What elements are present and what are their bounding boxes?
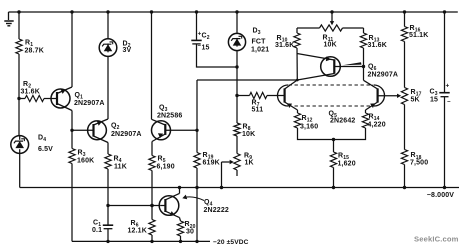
svg-text:2N2222: 2N2222 bbox=[204, 207, 229, 214]
wire R10 to Q5 node bbox=[296, 48, 298, 80]
node R7 junction bbox=[235, 94, 238, 97]
wire R1 top lead bbox=[18, 12, 20, 39]
transistor Q1 bbox=[51, 87, 105, 111]
node R15 bottom bbox=[332, 186, 335, 189]
node D3 top bbox=[235, 10, 238, 13]
node C1 bottom bbox=[106, 240, 109, 243]
svg-text:10K: 10K bbox=[242, 131, 255, 138]
resistor R5 bbox=[149, 156, 175, 171]
node C3 bottom bbox=[443, 186, 446, 189]
transistor Q2 bbox=[72, 119, 142, 143]
svg-text:511: 511 bbox=[252, 107, 264, 114]
svg-text:11K: 11K bbox=[114, 164, 127, 171]
svg-text:2N2642: 2N2642 bbox=[330, 118, 355, 125]
resistor R18 bbox=[401, 150, 428, 167]
node R9 wiper rail bbox=[220, 186, 223, 189]
svg-text:5K: 5K bbox=[411, 97, 420, 104]
capacitor C2 bbox=[191, 31, 209, 52]
node R20 bottom bbox=[179, 240, 182, 243]
resistor R10 bbox=[275, 28, 300, 49]
svg-text:2N2586: 2N2586 bbox=[157, 113, 182, 120]
svg-text:2N2907A: 2N2907A bbox=[74, 100, 105, 107]
svg-text:15: 15 bbox=[202, 45, 210, 52]
node Q4 collector rail bbox=[178, 186, 181, 189]
capacitor C3 bbox=[430, 83, 452, 106]
svg-text:2N2907A: 2N2907A bbox=[368, 72, 399, 79]
resistor R4 bbox=[105, 154, 127, 171]
label arrow Q4 bbox=[182, 195, 204, 201]
resistor R15 bbox=[330, 140, 355, 188]
wire rail to D3 bbox=[236, 12, 238, 34]
node R18 bottom bbox=[403, 186, 406, 189]
wire R16 to R17 bbox=[404, 42, 406, 88]
resistor R14 bbox=[362, 113, 385, 129]
transistor Q6 bbox=[297, 54, 364, 81]
wire R18 to rail bbox=[404, 165, 406, 188]
svg-text:1K: 1K bbox=[245, 160, 254, 167]
node Q5 left collector junction bbox=[296, 79, 299, 82]
node Q3 collector rail bbox=[150, 10, 153, 13]
svg-text:SeekIC.com: SeekIC.com bbox=[414, 235, 459, 244]
svg-text:160K: 160K bbox=[77, 158, 94, 165]
wire R3 to -20 rail crossing -8 rail bbox=[71, 164, 73, 242]
wire Q2 base node to R3 bbox=[71, 130, 73, 148]
svg-text:6.5V: 6.5V bbox=[38, 146, 53, 153]
wire rail to C2 bbox=[196, 12, 198, 40]
wire C2 to D3 column bbox=[197, 44, 238, 67]
resistor R3 bbox=[69, 149, 94, 165]
wire node to D4 bbox=[18, 99, 20, 136]
wire R9 wiper bbox=[222, 160, 234, 188]
wire D4 to -8V rail bbox=[19, 153, 21, 187]
svg-text:619K: 619K bbox=[203, 160, 220, 167]
resistor R20 bbox=[177, 221, 195, 241]
wire Q1 emitter to rail bbox=[71, 12, 73, 87]
svg-text:1,021: 1,021 bbox=[251, 47, 269, 54]
label Q6 bbox=[368, 64, 399, 79]
node R19 wire -20 rail bbox=[195, 240, 198, 243]
label arrow Q6 bbox=[343, 62, 362, 65]
wire Q4 base bbox=[108, 205, 160, 207]
wire rail to C3 bbox=[444, 12, 446, 92]
node Q3 base junction bbox=[195, 129, 198, 132]
wire Q2 collector to R4 bbox=[107, 143, 109, 155]
svg-text:FCT: FCT bbox=[252, 39, 267, 46]
svg-text:28.7K: 28.7K bbox=[25, 48, 44, 55]
wire D2 to Q2 emitter bbox=[107, 56, 109, 119]
wire R1 to R2 node bbox=[18, 54, 20, 99]
svg-text:30: 30 bbox=[186, 229, 194, 236]
transistor Q5 right half bbox=[364, 80, 402, 113]
svg-text:51.1K: 51.1K bbox=[409, 32, 428, 39]
node R1 top bbox=[17, 10, 20, 13]
capacitor C1 bbox=[92, 206, 113, 242]
wire -20V rail bbox=[72, 240, 210, 242]
node R6 bottom bbox=[150, 240, 153, 243]
wire rail to D2 bbox=[107, 12, 109, 39]
zener diode D2 bbox=[99, 39, 131, 57]
ground bbox=[4, 12, 13, 26]
resistor R9 bbox=[234, 153, 254, 177]
zener diode D3 bbox=[228, 28, 269, 54]
node C3 top bbox=[443, 10, 446, 13]
svg-text:3,160: 3,160 bbox=[300, 124, 318, 131]
svg-text:7,500: 7,500 bbox=[410, 160, 428, 167]
wire -8V rail bbox=[20, 187, 459, 189]
wire R19 node to -20 rail bbox=[196, 188, 198, 242]
svg-text:10K: 10K bbox=[324, 42, 337, 49]
svg-text:31.6K: 31.6K bbox=[21, 89, 40, 96]
zener diode D4 bbox=[11, 135, 53, 154]
svg-text:1,620: 1,620 bbox=[338, 161, 356, 168]
wire R4 to Q4 base node bbox=[107, 169, 109, 206]
resistor R16 bbox=[401, 12, 428, 42]
svg-text:3V: 3V bbox=[123, 47, 132, 54]
resistor R11 bbox=[297, 25, 364, 49]
resistor R13 bbox=[360, 28, 387, 49]
svg-text:31.6K: 31.6K bbox=[275, 42, 294, 49]
resistor R12 bbox=[294, 113, 318, 131]
resistor R8 bbox=[234, 123, 255, 138]
watermark SeekIC.com bbox=[414, 235, 459, 244]
node D2 top bbox=[106, 10, 109, 13]
svg-text:+: + bbox=[446, 83, 450, 90]
node R2 junction bbox=[17, 97, 20, 100]
svg-text:6,190: 6,190 bbox=[157, 164, 175, 171]
node Q2 base junction bbox=[70, 129, 73, 132]
svg-text:31.6K: 31.6K bbox=[368, 42, 387, 49]
node C2 top bbox=[195, 10, 198, 13]
wire D3 to R7 node bbox=[236, 51, 238, 96]
node Q6 base junction bbox=[362, 65, 365, 68]
wire D3 column to R8 bbox=[236, 96, 238, 124]
node Q4 base R6 junction bbox=[150, 204, 153, 207]
resistor R17 bbox=[401, 88, 421, 105]
svg-text:−20 ±5VDC: −20 ±5VDC bbox=[213, 239, 249, 245]
resistor R6 bbox=[128, 206, 156, 242]
node Q4 base node bbox=[106, 204, 109, 207]
wire Q4 emitter to R20 bbox=[180, 218, 181, 221]
wire top ground rail bbox=[9, 11, 458, 13]
transistor Q4 bbox=[159, 193, 179, 217]
wire R13 node to Q5 collector bbox=[363, 67, 365, 81]
wire Q4 collector to rail bbox=[179, 188, 181, 194]
svg-text:12.1K: 12.1K bbox=[128, 228, 147, 235]
dashed outline Q5 pair bbox=[289, 85, 374, 106]
wire R8 to R9 bbox=[236, 136, 238, 154]
node R11 wiper rail bbox=[330, 10, 333, 13]
wire C3 to rail bbox=[444, 97, 446, 188]
wire rail to Q3 collector bbox=[151, 12, 153, 119]
node Q1 emitter rail bbox=[70, 10, 73, 13]
label Q4 bbox=[204, 199, 229, 214]
node R15 top bbox=[332, 138, 335, 141]
transistor Q3 bbox=[152, 105, 198, 142]
wire R17 to R18 bbox=[404, 105, 406, 150]
label -8.000V bbox=[427, 192, 455, 199]
svg-text:15: 15 bbox=[430, 97, 438, 104]
wire Q3 emitter to R5 bbox=[151, 142, 153, 156]
resistor R1 bbox=[16, 39, 44, 55]
svg-text:2N2907A: 2N2907A bbox=[111, 131, 142, 138]
resistor R2 bbox=[19, 81, 51, 102]
wire R13 to Q6 base node bbox=[363, 48, 365, 67]
wire Q1 collector down bbox=[71, 111, 73, 131]
wire Q6 collector to Q3 base bbox=[197, 80, 297, 130]
label Q5 bbox=[329, 111, 356, 125]
resistor R7 bbox=[237, 92, 285, 113]
node R16 top bbox=[403, 10, 406, 13]
label -20 5VDC bbox=[213, 239, 249, 245]
node R19 bottom bbox=[195, 186, 198, 189]
node R6 top junction bbox=[150, 204, 153, 207]
wire R11 wiper from rail bbox=[330, 12, 334, 25]
wire R5 to R6 node bbox=[151, 171, 153, 206]
svg-text:−8.000V: −8.000V bbox=[427, 192, 455, 199]
node C2 wire junction bbox=[235, 65, 238, 68]
svg-text:0.1: 0.1 bbox=[92, 227, 102, 234]
svg-text:−: − bbox=[447, 99, 451, 105]
resistor R19 bbox=[194, 130, 220, 187]
svg-text:4,220: 4,220 bbox=[368, 122, 386, 129]
transistor Q5 left half bbox=[278, 80, 298, 113]
wire R12 R14 bottoms bbox=[298, 128, 366, 140]
